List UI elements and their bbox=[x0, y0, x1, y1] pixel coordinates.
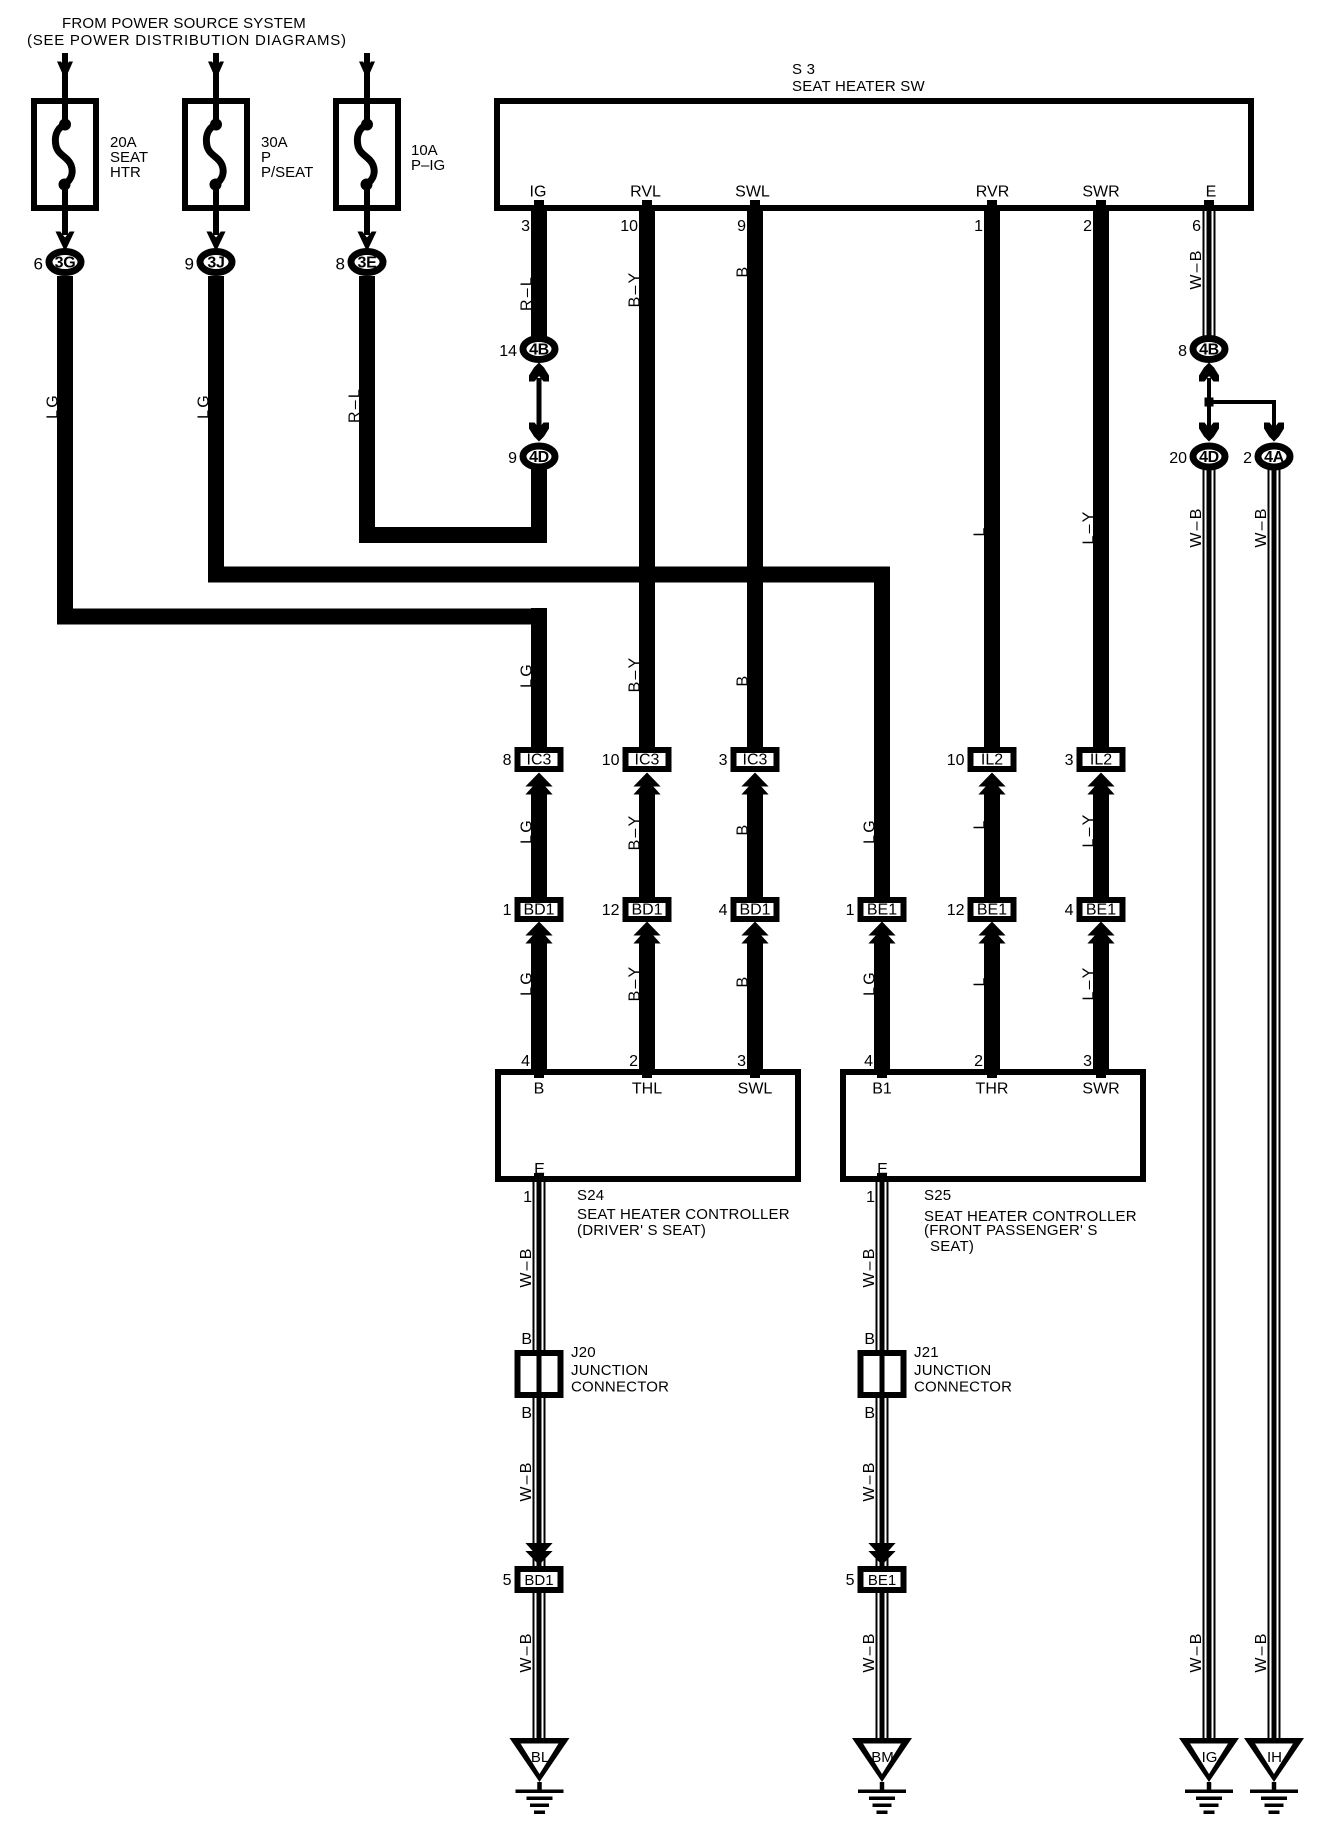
svg-text:BM: BM bbox=[871, 1749, 894, 1766]
feed arrow to fuse 3 bbox=[359, 53, 375, 98]
connector IC3 pin 10 bbox=[602, 747, 672, 772]
wire W-B BD1 to ground BL bbox=[518, 1593, 546, 1742]
svg-text:J20: J20 bbox=[571, 1344, 596, 1361]
wire RVR L from S3 to IL2 bbox=[972, 211, 1001, 747]
svg-text:W–B: W–B bbox=[518, 1460, 535, 1501]
svg-text:B: B bbox=[864, 1405, 875, 1422]
controller S25 box bbox=[843, 1072, 1143, 1179]
wire W-B S24 E to J20 bbox=[518, 1182, 546, 1350]
wire fuse1 to 3G bbox=[56, 211, 75, 252]
svg-text:4B: 4B bbox=[529, 342, 549, 359]
svg-text:B: B bbox=[735, 975, 752, 988]
connector 4A pin 2 bbox=[1243, 446, 1290, 467]
connector 4B pin 14 bbox=[499, 339, 555, 361]
svg-text:BD1: BD1 bbox=[524, 1572, 553, 1589]
svg-text:BD1: BD1 bbox=[631, 902, 662, 919]
svg-text:L–Y: L–Y bbox=[1081, 812, 1098, 847]
svg-text:CONNECTOR: CONNECTOR bbox=[914, 1379, 1012, 1396]
svg-text:12: 12 bbox=[947, 902, 965, 919]
connector IL2 pin 3 bbox=[1065, 747, 1126, 772]
svg-text:P/SEAT: P/SEAT bbox=[261, 164, 313, 181]
svg-text:14: 14 bbox=[499, 343, 517, 360]
wire R-L fuse3 horizontal bbox=[359, 527, 547, 543]
connector 3E pin 8 bbox=[336, 252, 383, 274]
connector 4D pin 20 bbox=[1169, 446, 1225, 467]
svg-text:B–Y: B–Y bbox=[627, 271, 644, 308]
svg-text:5: 5 bbox=[503, 1572, 512, 1589]
svg-text:(DRIVER' S SEAT): (DRIVER' S SEAT) bbox=[577, 1222, 706, 1239]
branch to 4D bbox=[1199, 404, 1219, 442]
svg-text:IL2: IL2 bbox=[981, 752, 1003, 769]
svg-text:SWR: SWR bbox=[1082, 1081, 1119, 1098]
svg-text:L: L bbox=[972, 975, 989, 986]
link 4B to 4D bbox=[529, 363, 549, 442]
svg-text:BE1: BE1 bbox=[1086, 902, 1116, 919]
svg-text:W–B: W–B bbox=[1253, 506, 1270, 547]
svg-text:RVR: RVR bbox=[976, 184, 1010, 201]
connector BD1 pin 5 bbox=[503, 1566, 564, 1593]
svg-text:L–Y: L–Y bbox=[1081, 965, 1098, 1000]
svg-text:L: L bbox=[972, 818, 989, 829]
svg-text:IC3: IC3 bbox=[527, 752, 552, 769]
svg-text:B–Y: B–Y bbox=[627, 965, 644, 1002]
svg-text:4: 4 bbox=[521, 1053, 530, 1070]
S25 pin numbers top bbox=[864, 1053, 1092, 1070]
svg-text:1: 1 bbox=[846, 902, 855, 919]
svg-text:4: 4 bbox=[864, 1053, 873, 1070]
wire W-B J21 to BE1 bbox=[861, 1398, 896, 1566]
svg-text:R–L: R–L bbox=[519, 275, 536, 311]
wire SWR L-Y from S3 to IL2 bbox=[1081, 211, 1110, 747]
svg-text:B: B bbox=[735, 265, 752, 278]
svg-text:9: 9 bbox=[737, 218, 746, 235]
ground BL bbox=[510, 1738, 570, 1814]
svg-text:THR: THR bbox=[976, 1081, 1009, 1098]
svg-text:3G: 3G bbox=[55, 255, 76, 272]
svg-text:W–B: W–B bbox=[861, 1631, 878, 1672]
connector IL2 pin 10 bbox=[947, 747, 1017, 772]
svg-text:8: 8 bbox=[1178, 343, 1187, 360]
switch S3 SEAT HEATER SW bbox=[497, 61, 1251, 208]
svg-text:FROM POWER SOURCE SYSTEM: FROM POWER SOURCE SYSTEM bbox=[62, 15, 306, 32]
connector BD1 pin 12 bbox=[602, 897, 672, 922]
svg-text:LG: LG bbox=[196, 393, 213, 419]
svg-text:1: 1 bbox=[974, 218, 983, 235]
connector 3J pin 9 bbox=[185, 252, 232, 274]
svg-text:IH: IH bbox=[1267, 1749, 1282, 1766]
svg-text:B: B bbox=[521, 1331, 532, 1348]
svg-text:LG: LG bbox=[862, 818, 879, 844]
junction connector J20 bbox=[515, 1350, 564, 1398]
svg-text:W–B: W–B bbox=[1188, 506, 1205, 547]
svg-text:HTR: HTR bbox=[110, 164, 141, 181]
svg-text:4: 4 bbox=[1065, 902, 1074, 919]
svg-text:IG: IG bbox=[530, 184, 547, 201]
arrow into IC3 pin3 bbox=[735, 773, 769, 898]
wire W-B 4A to ground IH bbox=[1253, 468, 1281, 1742]
fuse 10A P-IG bbox=[336, 101, 445, 208]
svg-text:2: 2 bbox=[629, 1053, 638, 1070]
svg-text:3: 3 bbox=[1083, 1053, 1092, 1070]
svg-text:BE1: BE1 bbox=[977, 902, 1007, 919]
svg-text:LG: LG bbox=[45, 393, 62, 419]
svg-text:L–Y: L–Y bbox=[1081, 509, 1098, 544]
svg-text:8: 8 bbox=[336, 255, 345, 274]
wire RVL B-Y from S3 to IC3 bbox=[627, 211, 656, 747]
link 4B to junction bbox=[1199, 363, 1219, 405]
fuse 20A SEAT HTR bbox=[34, 101, 148, 208]
arrow into BD1 pin4 bbox=[735, 922, 769, 1070]
connector BD1 pin 4 bbox=[719, 897, 780, 922]
svg-text:W–B: W–B bbox=[1188, 248, 1205, 289]
svg-text:W–B: W–B bbox=[1253, 1631, 1270, 1672]
connector BD1 pin 1 bbox=[503, 897, 564, 922]
svg-text:SEAT HEATER CONTROLLER: SEAT HEATER CONTROLLER bbox=[577, 1206, 790, 1223]
svg-text:JUNCTION: JUNCTION bbox=[914, 1362, 991, 1379]
connector 4B pin 8 bbox=[1178, 339, 1225, 361]
wire 4D down to corner bbox=[531, 468, 547, 543]
arrow into IL2 pin10 bbox=[972, 773, 1006, 898]
svg-text:CONNECTOR: CONNECTOR bbox=[571, 1379, 669, 1396]
svg-text:B: B bbox=[735, 674, 752, 687]
arrow into BD1 pin1 bbox=[519, 922, 553, 1070]
svg-text:JUNCTION: JUNCTION bbox=[571, 1362, 648, 1379]
connector BE1 pin 4 bbox=[1065, 897, 1126, 922]
branch to 4A bbox=[1264, 402, 1284, 442]
svg-text:4A: 4A bbox=[1264, 449, 1285, 466]
wire LG fuse1 down bbox=[45, 276, 74, 625]
svg-text:RVL: RVL bbox=[630, 184, 661, 201]
wire LG fuse2 down bbox=[196, 276, 225, 583]
svg-text:SWL: SWL bbox=[738, 1081, 773, 1098]
arrow into BE1 pin1 bbox=[862, 922, 896, 1070]
S25 labels bbox=[924, 1187, 1137, 1255]
svg-text:BD1: BD1 bbox=[739, 902, 770, 919]
svg-text:B1: B1 bbox=[872, 1081, 892, 1098]
svg-text:3E: 3E bbox=[358, 255, 378, 272]
svg-text:9: 9 bbox=[508, 450, 517, 467]
svg-text:3: 3 bbox=[719, 752, 728, 769]
connector 4D pin 9 bbox=[508, 446, 555, 467]
junction connector J21 bbox=[858, 1350, 907, 1398]
arrow into BD1 pin12 bbox=[627, 922, 661, 1070]
wire LG fuse1 to IC3 bbox=[519, 608, 548, 747]
svg-text:IL2: IL2 bbox=[1090, 752, 1112, 769]
fuse 30A P P/SEAT bbox=[185, 101, 313, 208]
connector BE1 pin 1 bbox=[846, 897, 907, 922]
J21 labels bbox=[914, 1344, 1012, 1396]
controller S24 box bbox=[498, 1072, 798, 1179]
svg-text:10: 10 bbox=[602, 752, 620, 769]
svg-text:IC3: IC3 bbox=[635, 752, 660, 769]
svg-text:B–Y: B–Y bbox=[627, 814, 644, 851]
wire W-B J20 to BD1 bbox=[518, 1398, 553, 1566]
svg-text:B: B bbox=[534, 1081, 545, 1098]
svg-text:J21: J21 bbox=[914, 1344, 939, 1361]
svg-text:S25: S25 bbox=[924, 1187, 951, 1204]
svg-text:LG: LG bbox=[519, 662, 536, 688]
svg-text:3J: 3J bbox=[207, 255, 224, 272]
wire W-B BE1 to ground BM bbox=[861, 1593, 889, 1742]
svg-text:W–B: W–B bbox=[1188, 1631, 1205, 1672]
svg-text:(SEE POWER DISTRIBUTION DIAGRA: (SEE POWER DISTRIBUTION DIAGRAMS) bbox=[27, 32, 347, 49]
svg-text:10: 10 bbox=[947, 752, 965, 769]
feed arrow to fuse 1 bbox=[57, 53, 73, 98]
wire SWL B from S3 to IC3 bbox=[735, 211, 764, 747]
connector 3G pin 6 bbox=[34, 252, 81, 274]
S24 labels bbox=[577, 1187, 790, 1239]
svg-text:4D: 4D bbox=[1199, 449, 1219, 466]
connector IC3 pin 3 bbox=[719, 747, 780, 772]
svg-text:20: 20 bbox=[1169, 450, 1187, 467]
svg-text:4B: 4B bbox=[1199, 342, 1219, 359]
svg-text:P–IG: P–IG bbox=[411, 157, 445, 174]
svg-text:B: B bbox=[735, 823, 752, 836]
wire LG fuse2 to BE1 bbox=[862, 574, 891, 897]
connector BE1 pin 12 bbox=[947, 897, 1017, 922]
svg-text:IG: IG bbox=[1202, 1749, 1218, 1766]
svg-text:6: 6 bbox=[34, 255, 43, 274]
svg-text:LG: LG bbox=[519, 818, 536, 844]
svg-text:3: 3 bbox=[521, 218, 530, 235]
wire E W-B from S3 to 4B bbox=[1188, 211, 1216, 336]
svg-text:R–L: R–L bbox=[347, 387, 364, 423]
svg-text:10: 10 bbox=[620, 218, 638, 235]
svg-text:(FRONT PASSENGER' S: (FRONT PASSENGER' S bbox=[924, 1222, 1098, 1239]
svg-text:BD1: BD1 bbox=[523, 902, 554, 919]
svg-text:1: 1 bbox=[503, 902, 512, 919]
svg-text:8: 8 bbox=[503, 752, 512, 769]
svg-text:SWR: SWR bbox=[1082, 184, 1119, 201]
svg-text:L: L bbox=[972, 525, 989, 536]
svg-text:W–B: W–B bbox=[518, 1246, 535, 1287]
svg-text:THL: THL bbox=[632, 1081, 662, 1098]
svg-text:LG: LG bbox=[519, 970, 536, 996]
svg-text:3: 3 bbox=[1065, 752, 1074, 769]
svg-text:S 3: S 3 bbox=[792, 61, 815, 78]
wire fuse3 to 3E bbox=[358, 211, 377, 252]
svg-text:4D: 4D bbox=[529, 449, 549, 466]
svg-text:2: 2 bbox=[1243, 450, 1252, 467]
svg-text:9: 9 bbox=[185, 255, 194, 274]
svg-text:3: 3 bbox=[737, 1053, 746, 1070]
svg-text:B: B bbox=[521, 1405, 532, 1422]
wire LG fuse1 horizontal bbox=[57, 609, 547, 625]
arrow into IC3 pin10 bbox=[627, 773, 661, 898]
svg-text:LG: LG bbox=[862, 970, 879, 996]
svg-text:SEAT): SEAT) bbox=[930, 1238, 974, 1255]
svg-text:1: 1 bbox=[866, 1189, 875, 1206]
ground IG bbox=[1179, 1738, 1239, 1814]
arrow into IC3 pin8 bbox=[519, 773, 553, 898]
svg-text:2: 2 bbox=[974, 1053, 983, 1070]
svg-text:SEAT HEATER SW: SEAT HEATER SW bbox=[792, 78, 925, 95]
junction node bbox=[1205, 398, 1277, 407]
ground BM bbox=[852, 1738, 912, 1814]
wire W-B S25 E to J21 bbox=[861, 1182, 889, 1350]
svg-text:SWL: SWL bbox=[735, 184, 770, 201]
svg-text:BE1: BE1 bbox=[867, 902, 897, 919]
arrow into BE1 pin4 bbox=[1081, 922, 1115, 1070]
J20 labels bbox=[571, 1344, 669, 1396]
svg-text:W–B: W–B bbox=[861, 1246, 878, 1287]
svg-text:4: 4 bbox=[719, 902, 728, 919]
svg-text:S24: S24 bbox=[577, 1187, 604, 1204]
svg-text:W–B: W–B bbox=[861, 1460, 878, 1501]
svg-text:12: 12 bbox=[602, 902, 620, 919]
wire fuse2 to 3J bbox=[207, 211, 226, 252]
connector BE1 pin 5 bbox=[846, 1566, 907, 1593]
wire LG fuse2 horizontal bbox=[208, 567, 890, 583]
arrow into IL2 pin3 bbox=[1081, 773, 1115, 898]
svg-text:IC3: IC3 bbox=[743, 752, 768, 769]
note: from power source system bbox=[27, 15, 347, 49]
svg-text:E: E bbox=[1206, 184, 1217, 201]
wire W-B 4D to ground IG bbox=[1188, 468, 1216, 1742]
feed arrow to fuse 2 bbox=[208, 53, 224, 98]
svg-text:B: B bbox=[864, 1331, 875, 1348]
svg-text:6: 6 bbox=[1192, 218, 1201, 235]
arrow into BE1 pin12 bbox=[972, 922, 1006, 1070]
svg-text:B–Y: B–Y bbox=[627, 656, 644, 693]
wire R-L fuse3 down bbox=[347, 276, 376, 543]
svg-text:BE1: BE1 bbox=[868, 1572, 896, 1589]
svg-text:5: 5 bbox=[846, 1572, 855, 1589]
S24 pin numbers top bbox=[521, 1053, 746, 1070]
wire IG R-L from S3 to 4B bbox=[519, 211, 548, 336]
S3 pin numbers bbox=[521, 218, 1201, 235]
svg-text:BL: BL bbox=[531, 1749, 549, 1766]
svg-text:1: 1 bbox=[523, 1189, 532, 1206]
connector IC3 pin 8 bbox=[503, 747, 564, 772]
svg-text:2: 2 bbox=[1083, 218, 1092, 235]
ground IH bbox=[1244, 1738, 1304, 1814]
svg-text:W–B: W–B bbox=[518, 1631, 535, 1672]
